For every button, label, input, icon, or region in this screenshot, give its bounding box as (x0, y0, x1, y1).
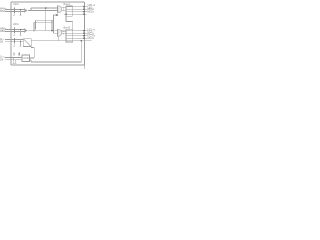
svg-text:MBN-: MBN- (0, 31, 6, 33)
svg-text:2M: 2M (0, 41, 3, 43)
svg-text:2Rxx: 2Rxx (13, 23, 19, 26)
svg-text:Bus B: Bus B (64, 27, 71, 30)
svg-text:1L+: 1L+ (0, 56, 5, 58)
svg-text:MAN-: MAN- (0, 10, 6, 13)
svg-text:1Rxx: 1Rxx (13, 3, 19, 6)
svg-text:1M: 1M (0, 59, 3, 61)
svg-text:DC5V: DC5V (23, 58, 30, 60)
svg-text:Bus A: Bus A (64, 3, 71, 6)
svg-text:MC2x: MC2x (88, 37, 95, 40)
svg-text:MAN+: MAN+ (0, 7, 7, 10)
svg-text:MD2x: MD2x (88, 11, 95, 14)
svg-text:MBN+: MBN+ (0, 28, 7, 30)
